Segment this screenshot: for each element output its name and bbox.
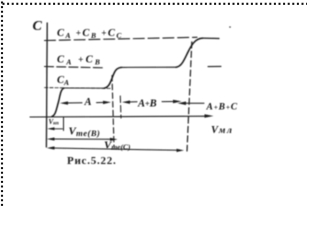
- breakthrough curve step 1 rise: [52, 88, 64, 116]
- curve plateau 2: [122, 66, 177, 68]
- svg-text:A+B: A+B: [137, 99, 157, 110]
- span A+B+C left arrow: [183, 102, 204, 104]
- svg-text:Vme(C): Vme(C): [104, 139, 131, 151]
- svg-text:Рис.5.22.: Рис.5.22.: [67, 155, 116, 167]
- dim line Vme(C): [50, 148, 180, 150]
- svg-text:A: A: [84, 97, 92, 108]
- svg-text:Vмл: Vмл: [211, 125, 234, 136]
- level line CA+CB (dashed): [45, 67, 105, 68]
- svg-text:C: C: [33, 19, 43, 34]
- curve plateau 3: [203, 37, 220, 39]
- span A+B arrows: [127, 101, 137, 103]
- dim line Vme(B): [50, 138, 113, 140]
- Vnp arrow: [50, 128, 63, 130]
- svg-text:Vнп: Vнп: [49, 118, 59, 127]
- level line CA (thin dotted): [45, 87, 112, 90]
- x-axis arrowhead: [205, 114, 214, 118]
- level line CA+CB right dash: [208, 65, 221, 67]
- x-axis: [30, 115, 206, 118]
- dotted border top: [3, 3, 308, 5]
- dashed vertical V1: [112, 76, 114, 147]
- Vnp tick: [63, 118, 65, 131]
- span A arrows: [66, 102, 83, 104]
- speck top right: [229, 26, 231, 28]
- dashed vertical V3: [187, 42, 192, 151]
- curve step 2 rise: [104, 67, 122, 88]
- curve step 3 rise: [176, 38, 203, 67]
- svg-text:A+B+C: A+B+C: [206, 103, 239, 113]
- svg-text:CA: CA: [57, 75, 69, 87]
- svg-text:Vme(B): Vme(B): [69, 125, 101, 138]
- y-axis: [45, 23, 48, 147]
- short dashed vertical V1b: [119, 96, 122, 118]
- dotted border left: [1, 2, 3, 208]
- level line CA+CB+CC (dashed): [45, 37, 198, 40]
- curve plateau 1: [64, 87, 104, 89]
- svg-text:CA +CB +CC: CA +CB +CC: [57, 28, 123, 40]
- svg-text:CA +CB: CA +CB: [57, 54, 102, 66]
